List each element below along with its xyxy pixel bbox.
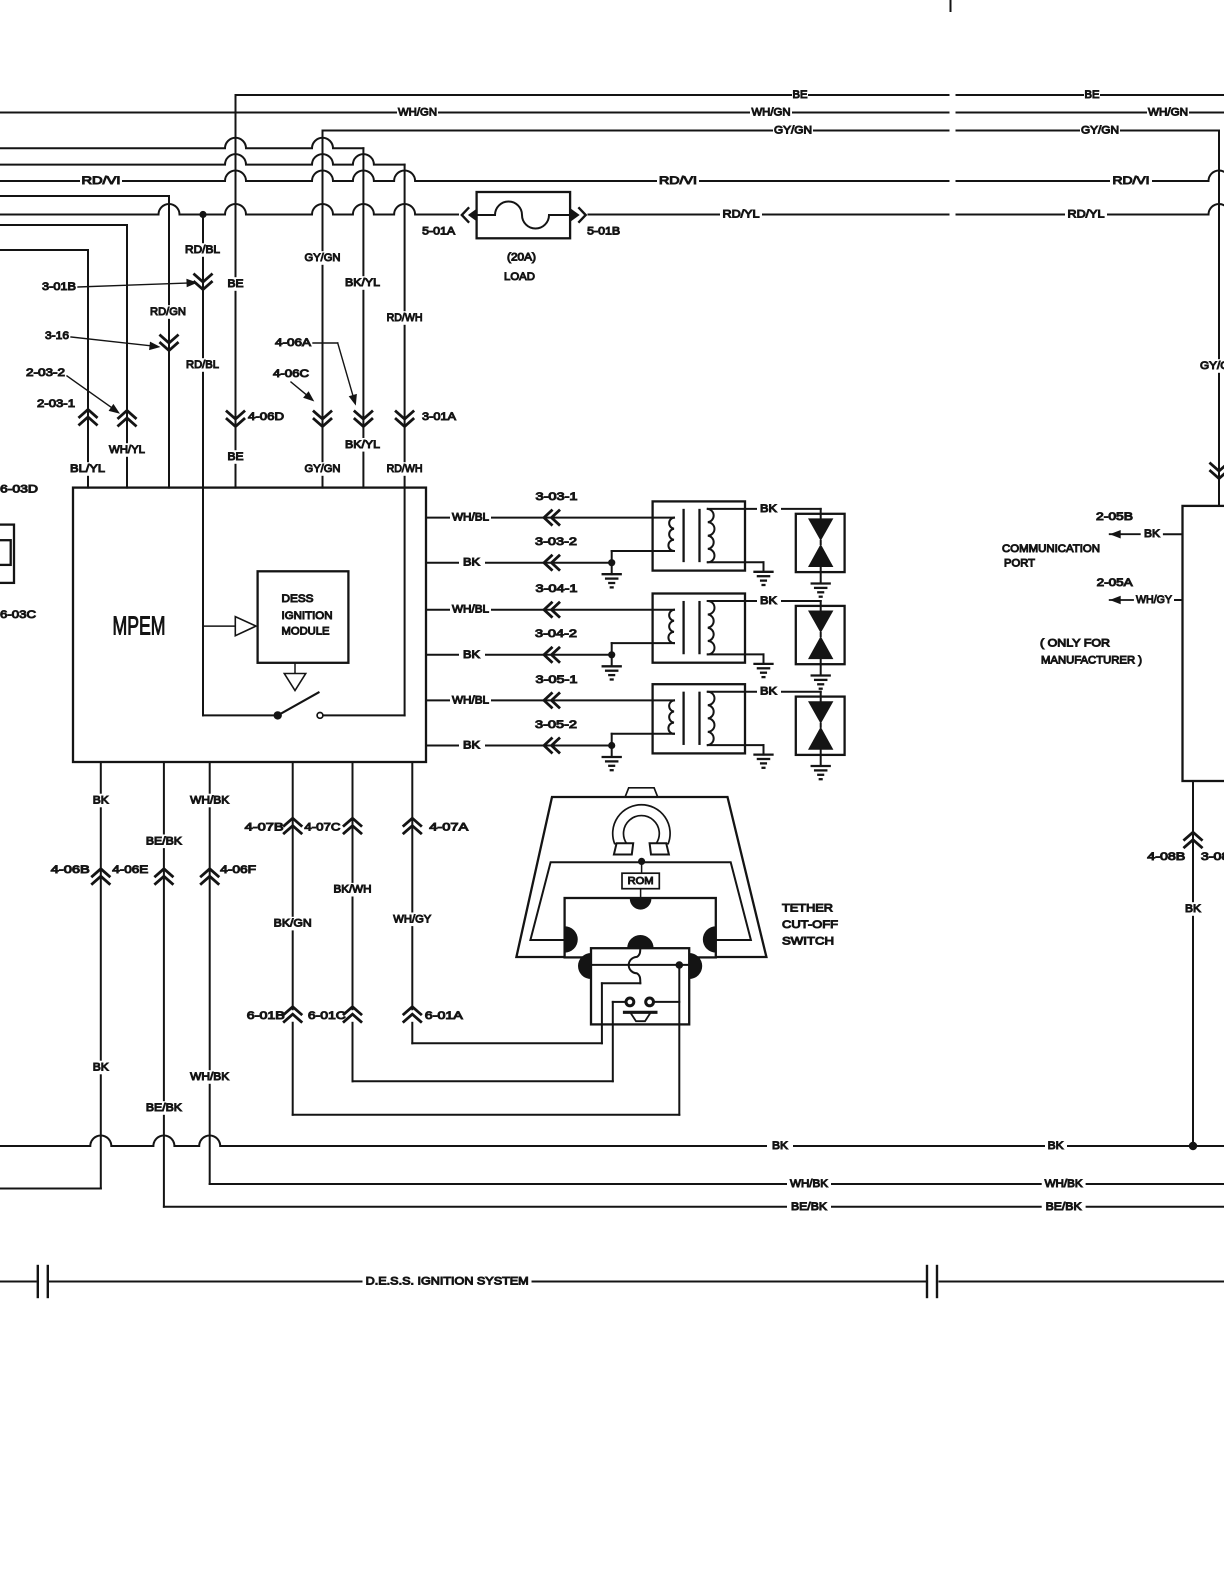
svg-text:6-01C: 6-01C (308, 1010, 346, 1022)
svg-text:WH/GY: WH/GY (393, 913, 432, 925)
svg-text:4-06A: 4-06A (275, 337, 312, 349)
svg-text:WH/GY: WH/GY (1136, 594, 1173, 606)
svg-text:6-01A: 6-01A (425, 1010, 464, 1022)
svg-text:3-01A: 3-01A (422, 411, 457, 423)
svg-text:BK: BK (760, 595, 778, 607)
svg-text:GY/GN: GY/GN (1200, 360, 1224, 372)
svg-text:TETHER: TETHER (782, 903, 833, 915)
svg-text:GY/GN: GY/GN (774, 125, 812, 137)
svg-text:WH/BL: WH/BL (452, 604, 489, 616)
svg-text:BK/YL: BK/YL (345, 439, 380, 451)
svg-text:4-06D: 4-06D (248, 411, 284, 423)
svg-text:LOAD: LOAD (504, 271, 535, 283)
svg-text:MPEM: MPEM (113, 611, 166, 641)
svg-text:3-16: 3-16 (45, 330, 69, 342)
svg-text:BE: BE (793, 89, 808, 101)
svg-text:COMMUNICATION: COMMUNICATION (1002, 543, 1100, 555)
svg-text:WH/BL: WH/BL (452, 694, 489, 706)
svg-text:CUT-OFF: CUT-OFF (782, 919, 838, 931)
svg-text:3-03-1: 3-03-1 (536, 491, 578, 503)
svg-text:BK: BK (1144, 528, 1161, 540)
svg-text:BK: BK (463, 649, 481, 661)
svg-text:WH/BL: WH/BL (452, 512, 489, 524)
svg-text:RD/BL: RD/BL (186, 359, 219, 371)
svg-text:3-04-1: 3-04-1 (536, 583, 578, 595)
svg-text:RD/WH: RD/WH (387, 463, 423, 475)
svg-text:WH/BK: WH/BK (190, 795, 230, 807)
svg-text:BK/GN: BK/GN (274, 918, 312, 930)
svg-text:WH/GN: WH/GN (1148, 107, 1188, 119)
svg-text:BL/YL: BL/YL (70, 463, 105, 475)
svg-text:( ONLY FOR: ( ONLY FOR (1040, 638, 1110, 650)
svg-text:RD/GN: RD/GN (150, 306, 186, 318)
svg-text:WH/BK: WH/BK (190, 1071, 230, 1083)
svg-text:BK: BK (760, 686, 778, 698)
svg-text:3-05-1: 3-05-1 (536, 674, 578, 686)
svg-text:4-07C: 4-07C (304, 822, 340, 834)
svg-text:ROM: ROM (628, 875, 654, 887)
svg-text:WH/GN: WH/GN (752, 107, 791, 119)
svg-text:3-01B: 3-01B (42, 281, 76, 293)
svg-text:6-01B: 6-01B (247, 1010, 285, 1022)
svg-text:WH/YL: WH/YL (109, 444, 145, 456)
svg-text:RD/YL: RD/YL (1068, 209, 1105, 221)
svg-text:BE/BK: BE/BK (146, 1102, 183, 1114)
svg-text:4-06E: 4-06E (112, 864, 148, 876)
svg-text:BK: BK (463, 557, 481, 569)
svg-text:BE/BK: BE/BK (146, 835, 183, 847)
svg-text:4-07A: 4-07A (429, 822, 469, 834)
svg-text:BK: BK (93, 1062, 110, 1074)
svg-text:4-06C: 4-06C (273, 368, 309, 380)
svg-text:GY/GN: GY/GN (1081, 125, 1119, 137)
svg-text:IGNITION: IGNITION (282, 610, 333, 622)
svg-text:BK/WH: BK/WH (334, 884, 372, 896)
svg-text:BK: BK (93, 795, 110, 807)
svg-text:3-05-2: 3-05-2 (535, 719, 577, 731)
svg-text:DESS: DESS (282, 593, 314, 605)
svg-text:BK: BK (760, 503, 778, 515)
svg-text:BK: BK (463, 740, 481, 752)
svg-text:5-01B: 5-01B (587, 226, 620, 238)
svg-text:3-04-2: 3-04-2 (535, 628, 577, 640)
svg-text:D.E.S.S. IGNITION SYSTEM: D.E.S.S. IGNITION SYSTEM (366, 1276, 529, 1288)
svg-text:2-05A: 2-05A (1097, 577, 1134, 589)
svg-text:6-03D: 6-03D (0, 483, 38, 495)
svg-text:RD/WH: RD/WH (387, 312, 423, 324)
svg-text:BE: BE (228, 278, 244, 290)
svg-text:2-03-1: 2-03-1 (37, 398, 75, 410)
svg-text:MANUFACTURER ): MANUFACTURER ) (1041, 655, 1142, 667)
svg-text:SWITCH: SWITCH (782, 936, 834, 948)
svg-text:RD/BL: RD/BL (185, 244, 220, 256)
svg-text:BE/BK: BE/BK (791, 1201, 828, 1213)
svg-text:BK: BK (1048, 1140, 1065, 1152)
svg-text:RD/YL: RD/YL (723, 209, 760, 221)
svg-text:4-07B: 4-07B (245, 822, 284, 834)
svg-text:RD/VI: RD/VI (82, 175, 121, 187)
svg-text:GY/GN: GY/GN (305, 252, 341, 264)
svg-text:(20A): (20A) (507, 252, 536, 264)
svg-text:BE: BE (1085, 89, 1100, 101)
svg-text:5-01A: 5-01A (422, 226, 456, 238)
svg-text:4-06F: 4-06F (220, 864, 256, 876)
svg-text:BK: BK (772, 1140, 789, 1152)
svg-text:4-06B: 4-06B (51, 864, 90, 876)
svg-text:BK: BK (1185, 903, 1202, 915)
svg-text:WH/BK: WH/BK (790, 1178, 829, 1190)
svg-text:GY/GN: GY/GN (305, 463, 341, 475)
svg-text:WH/BK: WH/BK (1045, 1178, 1084, 1190)
svg-text:RD/VI: RD/VI (659, 175, 697, 187)
svg-text:MODULE: MODULE (282, 626, 330, 638)
svg-text:4-08B: 4-08B (1147, 851, 1185, 863)
svg-text:PORT: PORT (1004, 558, 1035, 570)
svg-text:3-03-2: 3-03-2 (535, 536, 577, 548)
svg-text:6-03C: 6-03C (0, 609, 36, 621)
svg-text:2-03-2: 2-03-2 (26, 367, 65, 379)
svg-text:2-05B: 2-05B (1096, 511, 1133, 523)
svg-text:BE/BK: BE/BK (1046, 1201, 1083, 1213)
svg-text:BK/YL: BK/YL (345, 277, 380, 289)
svg-text:RD/VI: RD/VI (1113, 175, 1150, 187)
svg-text:WH/GN: WH/GN (398, 107, 437, 119)
svg-text:BE: BE (228, 451, 244, 463)
svg-text:3-08B: 3-08B (1201, 851, 1224, 863)
